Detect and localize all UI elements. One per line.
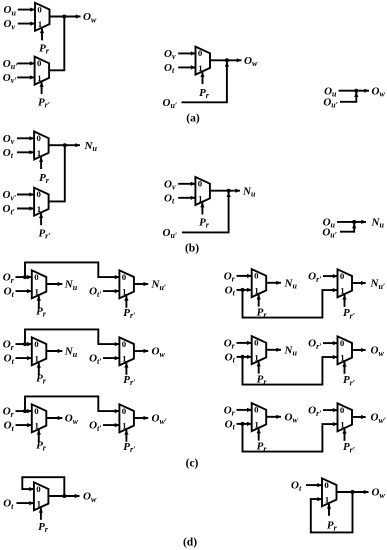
svg-text:Ow: Ow xyxy=(152,346,166,359)
svg-text:Nu: Nu xyxy=(371,217,385,230)
svg-text:Pr: Pr xyxy=(36,306,47,319)
mux U19 (P_r mux, part d left) xyxy=(34,482,49,520)
node K (output junction, d right) (junction) xyxy=(351,490,355,494)
svg-text:Ow: Ow xyxy=(65,413,79,426)
wire U19 output to O_w xyxy=(48,495,79,497)
wire O_r' to U18 pin0 (c r3 right) xyxy=(323,409,338,411)
wire O_t to U13 pin1 (c r2 right) xyxy=(237,356,252,358)
wire U12 output (c r2 left) xyxy=(134,350,148,352)
svg-text:Nu: Nu xyxy=(84,140,98,153)
mux U13 (P_r mux, part c row2 right) xyxy=(252,336,267,374)
wire U4 output to N_u xyxy=(49,144,80,146)
svg-text:Ot: Ot xyxy=(225,285,236,298)
svg-text:Ot′: Ot′ xyxy=(89,420,101,433)
svg-text:Ow′: Ow′ xyxy=(371,412,387,425)
wire O_u' up to node E xyxy=(182,192,229,232)
wire U16 output (c r3 left) xyxy=(134,417,148,419)
wire U1 output to O_w xyxy=(50,16,81,18)
wire U18 output (c r3 right) xyxy=(352,416,366,418)
wire feed-forward G2 to U12 pin0 xyxy=(25,329,119,344)
svg-text:Pr′: Pr′ xyxy=(38,96,50,109)
svg-text:Ot: Ot xyxy=(4,420,15,433)
wire O_u' up to node C xyxy=(340,92,356,102)
svg-text:Nu: Nu xyxy=(64,279,78,292)
mux U16 (P_r' mux, part c row3 left) xyxy=(119,404,133,442)
mux U1 (P_r mux, part a left) xyxy=(35,3,50,41)
svg-text:Ot: Ot xyxy=(3,498,14,511)
svg-text:Ow: Ow xyxy=(372,487,386,500)
svg-text:Or′: Or′ xyxy=(308,405,321,418)
svg-text:Ow: Ow xyxy=(372,85,386,98)
wire O_u' up to node B xyxy=(182,62,227,102)
wire O_t' to U16 pin1 (c r3 left) xyxy=(103,424,119,426)
mux U7 (P_r mux, part c row1 left) xyxy=(32,270,47,308)
wire U10 output (c r1 right) xyxy=(352,282,366,284)
wire O_r to U7 pin0 (c r1 left) xyxy=(16,276,32,278)
svg-text:Pr: Pr xyxy=(257,374,268,387)
svg-text:Or′: Or′ xyxy=(308,338,321,351)
svg-text:Ow′: Ow′ xyxy=(152,413,168,426)
wire feed-forward H1 to U10 pin1 xyxy=(243,290,338,318)
mux U15 (P_r mux, part c row3 left) xyxy=(32,404,47,442)
wire O_t' to U8 pin1 (c r1 left) xyxy=(103,290,119,292)
svg-text:(a): (a) xyxy=(186,113,200,125)
svg-text:Ov: Ov xyxy=(3,133,15,146)
node G1 (tap on O_r, c r1 left) (junction) xyxy=(23,275,27,279)
svg-text:Ot: Ot xyxy=(4,286,15,299)
wire O_u to U1 pin0 xyxy=(18,9,35,11)
svg-text:Pr: Pr xyxy=(257,441,268,454)
wire U2 output up to node A xyxy=(49,17,64,71)
svg-text:Ou′: Ou′ xyxy=(163,97,178,110)
svg-text:Pr′: Pr′ xyxy=(38,228,50,241)
svg-text:(c): (c) xyxy=(186,458,199,470)
wire O_t' to U12 pin1 (c r2 left) xyxy=(103,357,119,359)
svg-text:Ot: Ot xyxy=(4,353,15,366)
mux U18 (P_r' mux, part c row3 right) xyxy=(338,403,353,441)
wire O_r' to U14 pin0 (c r2 right) xyxy=(323,342,338,344)
svg-text:Nu′: Nu′ xyxy=(151,279,167,292)
svg-text:Or: Or xyxy=(224,271,236,284)
mux U3 (P_r mux, part a middle) xyxy=(196,47,211,85)
mux U9 (P_r mux, part c row1 right) xyxy=(252,269,267,307)
wire O_v to U1 pin1 xyxy=(18,23,35,25)
svg-text:Pr′: Pr′ xyxy=(343,374,355,387)
wire O_r to U13 pin0 (c r2 right) xyxy=(237,342,252,344)
wire feedback K to U20 pin1 xyxy=(311,492,353,532)
svg-text:(d): (d) xyxy=(183,537,197,549)
svg-text:Or′: Or′ xyxy=(308,271,321,284)
svg-text:Ot: Ot xyxy=(164,192,175,205)
svg-text:Nu: Nu xyxy=(284,344,298,357)
wire O_t to U17 pin1 (c r3 right) xyxy=(237,423,252,425)
svg-text:Ot: Ot xyxy=(3,147,14,160)
wire O_u to O_w xyxy=(339,90,370,92)
svg-text:Pr′: Pr′ xyxy=(123,307,135,320)
svg-text:Pr′: Pr′ xyxy=(343,307,355,320)
wire O_t to U20 pin0 (d right) xyxy=(306,484,322,486)
node D (output junction) (junction) xyxy=(63,143,67,147)
wire O_r to U9 pin0 (c r1 right) xyxy=(237,275,252,277)
node H3 (tap on O_t, c r3 right) (junction) xyxy=(241,422,245,426)
wire O_u to N_u xyxy=(337,221,366,223)
node B (output junction) (junction) xyxy=(225,58,229,62)
svg-text:Ot: Ot xyxy=(225,419,236,432)
wire feed-forward G1 to U8 pin0 xyxy=(25,262,119,277)
wire U14 output (c r2 right) xyxy=(352,349,366,351)
wire U13 output (c r2 right) xyxy=(266,349,281,351)
svg-text:Pr: Pr xyxy=(38,521,49,534)
svg-text:Or: Or xyxy=(3,272,15,285)
mux U6 (P_r mux, part b middle) xyxy=(195,177,210,215)
svg-text:Pr′: Pr′ xyxy=(123,441,135,454)
wire O_r to U17 pin0 (c r3 right) xyxy=(237,409,252,411)
svg-text:Ow: Ow xyxy=(83,11,97,24)
wire U8 output (c r1 left) xyxy=(134,283,148,285)
node C (junction) (junction) xyxy=(354,89,358,93)
wire O_v to U6 pin0 xyxy=(178,183,195,185)
svg-text:Ow: Ow xyxy=(285,411,299,424)
svg-text:Pr: Pr xyxy=(36,373,47,386)
svg-text:Ov: Ov xyxy=(164,48,176,61)
mux U17 (P_r mux, part c row3 right) xyxy=(252,403,267,441)
svg-text:Ot: Ot xyxy=(225,352,236,365)
svg-text:Ov′: Ov′ xyxy=(3,189,17,202)
svg-text:Ov: Ov xyxy=(4,18,16,31)
node F (junction) (junction) xyxy=(352,220,356,224)
svg-text:Pr: Pr xyxy=(257,307,268,320)
wire U20 output to O_w xyxy=(337,491,369,493)
wire feed-forward H2 to U14 pin1 xyxy=(243,357,338,385)
mux U20 (P_r mux, part d right) xyxy=(322,478,337,516)
wire O_t to U19 pin1 (d left) xyxy=(17,502,34,504)
node G2 (tap on O_r, c r2 left) (junction) xyxy=(23,342,27,346)
wire O_v' to U5 pin0 xyxy=(17,194,34,196)
svg-text:Or: Or xyxy=(224,405,236,418)
wire O_t to U15 pin1 (c r3 left) xyxy=(16,424,32,426)
wire U9 output (c r1 right) xyxy=(266,282,281,284)
node E (output junction) (junction) xyxy=(227,189,231,193)
wire O_t' to U5 pin1 xyxy=(17,208,34,210)
wire U6 output to N_u xyxy=(210,190,240,192)
wire O_u' up to node F xyxy=(340,224,354,232)
wire O_t to U4 pin1 xyxy=(17,151,34,153)
svg-text:Pr: Pr xyxy=(39,43,50,56)
mux U11 (P_r mux, part c row2 left) xyxy=(32,337,47,375)
svg-text:Nu: Nu xyxy=(64,346,78,359)
wire O_v to U4 pin0 xyxy=(17,137,34,139)
wire O_t to U7 pin1 (c r1 left) xyxy=(16,290,32,292)
svg-text:Ou′: Ou′ xyxy=(3,58,18,71)
svg-text:Pr: Pr xyxy=(39,172,50,185)
wire O_t to U6 pin1 xyxy=(178,197,195,199)
mux U12 (P_r' mux, part c row2 left) xyxy=(119,337,133,375)
wire U3 output to O_w xyxy=(210,59,242,61)
svg-text:Ot′: Ot′ xyxy=(89,286,101,299)
node J (output junction, d left) (junction) xyxy=(62,494,66,498)
mux U2 (P_r' mux, part a left) xyxy=(35,57,50,95)
svg-text:Ot: Ot xyxy=(291,480,302,493)
wire O_r to U11 pin0 (c r2 left) xyxy=(16,343,32,345)
svg-text:Ot: Ot xyxy=(164,62,175,75)
svg-text:(b): (b) xyxy=(185,243,199,255)
mux U10 (P_r' mux, part c row1 right) xyxy=(338,269,353,307)
svg-text:Or: Or xyxy=(3,406,15,419)
svg-text:Ou′: Ou′ xyxy=(163,227,178,240)
wire O_r to U15 pin0 (c r3 left) xyxy=(16,410,32,412)
wire O_v' to U2 pin1 xyxy=(17,76,34,78)
svg-text:Pr: Pr xyxy=(199,217,210,230)
svg-text:Ot′: Ot′ xyxy=(89,353,101,366)
svg-text:Pr′: Pr′ xyxy=(123,374,135,387)
node G3 (tap on O_r, c r3 left) (junction) xyxy=(23,409,27,413)
wire feed-forward G3 to U16 pin0 xyxy=(25,396,119,411)
svg-text:Nu: Nu xyxy=(284,277,298,290)
wire O_v to U3 pin0 xyxy=(178,52,195,54)
svg-text:Ov′: Ov′ xyxy=(3,72,17,85)
svg-text:Nu: Nu xyxy=(242,185,256,198)
wire U5 output up to node D xyxy=(49,145,65,201)
mux U5 (P_r' mux, part b left) xyxy=(34,188,49,226)
svg-text:Ot′: Ot′ xyxy=(3,203,15,216)
wire O_t to U9 pin1 (c r1 right) xyxy=(237,289,252,291)
svg-text:Ow: Ow xyxy=(83,491,97,504)
svg-text:Pr: Pr xyxy=(36,440,47,453)
wire U15 output (c r3 left) xyxy=(46,417,62,419)
svg-text:Ow: Ow xyxy=(371,345,385,358)
wire feedback J to U19 pin0 xyxy=(22,477,64,496)
wire feed-forward H3 to U18 pin1 xyxy=(243,424,338,452)
mux U8 (P_r' mux, part c row1 left) xyxy=(119,270,133,308)
svg-text:Pr: Pr xyxy=(327,520,338,533)
wire O_u' to U2 pin0 xyxy=(17,62,34,64)
svg-text:Or: Or xyxy=(3,339,15,352)
node A (output junction) (junction) xyxy=(62,15,66,19)
wire U11 output (c r2 left) xyxy=(46,350,62,352)
node H2 (tap on O_t, c r2 right) (junction) xyxy=(241,355,245,359)
svg-text:Nu′: Nu′ xyxy=(370,278,386,291)
svg-text:Ou: Ou xyxy=(4,4,17,17)
svg-text:Ov: Ov xyxy=(164,178,176,191)
wire U17 output (c r3 right) xyxy=(266,416,281,418)
wire O_t to U11 pin1 (c r2 left) xyxy=(16,357,32,359)
wire U7 output (c r1 left) xyxy=(46,283,62,285)
svg-text:Pr′: Pr′ xyxy=(343,441,355,454)
wire O_r' to U10 pin0 (c r1 right) xyxy=(323,275,338,277)
mux U14 (P_r' mux, part c row2 right) xyxy=(338,336,353,374)
mux U4 (P_r mux, part b left) xyxy=(34,132,49,170)
svg-text:Or: Or xyxy=(224,338,236,351)
node H1 (tap on O_t, c r1 right) (junction) xyxy=(241,288,245,292)
svg-text:Ow: Ow xyxy=(244,55,258,68)
svg-text:Pr: Pr xyxy=(199,87,210,100)
wire O_t to U3 pin1 xyxy=(178,66,195,68)
